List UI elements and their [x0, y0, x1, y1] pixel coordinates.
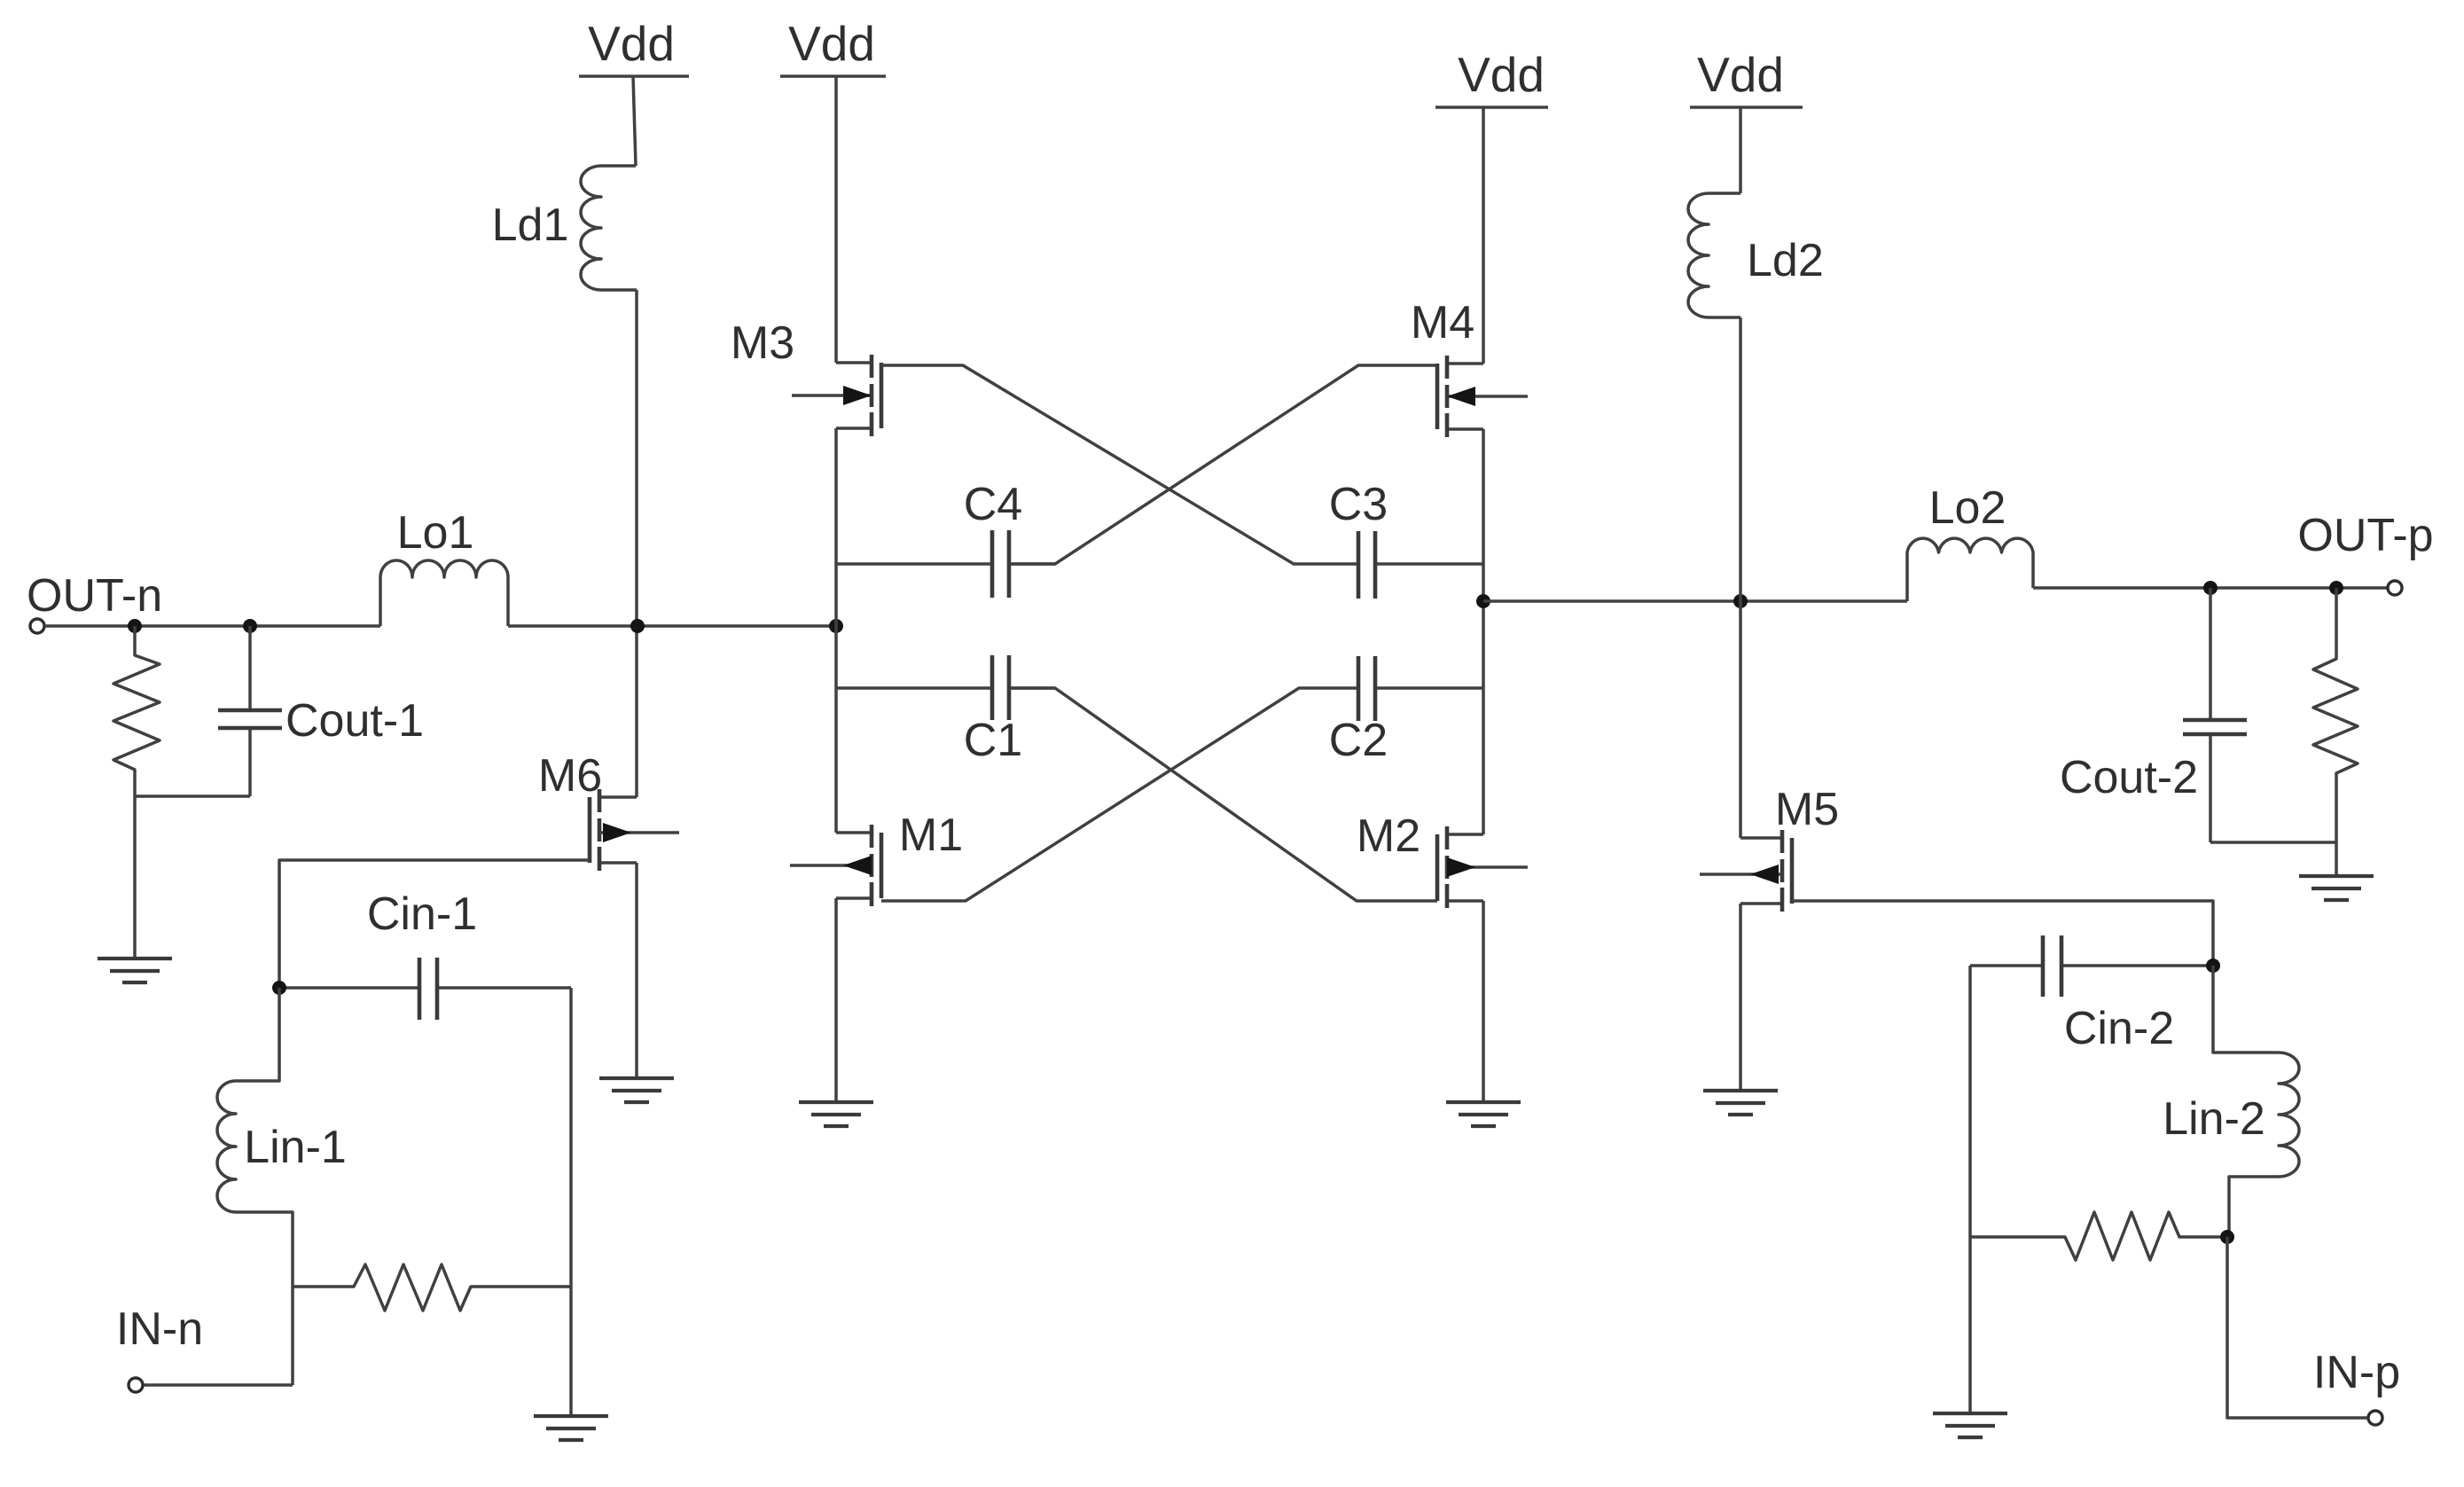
- svg-text:Vdd: Vdd: [1697, 47, 1784, 102]
- transistor M5: [1700, 784, 1839, 1091]
- terminal OUT-p: [2297, 510, 2433, 595]
- terminal IN-n: [116, 1303, 203, 1392]
- inductor Lin-1: [217, 988, 347, 1385]
- svg-text:M3: M3: [731, 317, 794, 369]
- resistor R-in-p: [1970, 1212, 2220, 1260]
- power Vdd3 bar: [1435, 106, 1548, 109]
- wire M3 source to M1 drain: [834, 428, 838, 833]
- capacitor Cout-2: [2060, 588, 2247, 842]
- wire M4 source to M2 drain: [1482, 429, 1485, 834]
- wire Lo2 to OUT-p: [2033, 586, 2388, 590]
- wire M2 gate to C1 (cross-couple): [1010, 688, 1437, 901]
- capacitor Cout-1: [218, 626, 424, 796]
- node dot at M4 drain line: [1476, 594, 1490, 608]
- svg-text:OUT-p: OUT-p: [2297, 510, 2433, 561]
- node dot at Cout-2 tap: [2203, 581, 2218, 595]
- wire M4 line to Lo2: [1483, 599, 1907, 603]
- svg-text:Vdd: Vdd: [1458, 47, 1545, 102]
- inductor Ld1: [492, 166, 637, 290]
- transistor M1: [790, 810, 963, 1102]
- svg-text:Cout-1: Cout-1: [286, 695, 424, 747]
- node dot at Cin-1 left: [272, 981, 286, 995]
- inductor Lo2: [1907, 482, 2033, 601]
- ground under Cin-1 right line: [534, 1416, 608, 1440]
- resistor R-out-n: [113, 626, 160, 959]
- power Vdd2 label: [788, 16, 875, 71]
- wire Vdd4 to Ld2: [1739, 107, 1742, 193]
- wire M4 gate to C4 (cross-couple): [1010, 365, 1437, 564]
- svg-text:IN-n: IN-n: [116, 1303, 203, 1355]
- svg-text:Cin-1: Cin-1: [367, 888, 477, 940]
- node dot at Cout-1 tap: [243, 619, 257, 633]
- wire Vdd1 to Ld1: [633, 76, 636, 166]
- ground under Cin-2 left line: [1933, 1413, 2007, 1437]
- svg-text:Lo1: Lo1: [397, 507, 474, 559]
- wire M5 gate to Cin-2 node: [1792, 901, 2213, 966]
- capacitor Cin-2: [1970, 935, 2213, 1054]
- svg-text:Ld1: Ld1: [492, 200, 569, 251]
- inductor Lo1: [380, 507, 508, 626]
- ground under M6: [599, 1078, 674, 1102]
- ground under M2: [1446, 1102, 1521, 1126]
- wire Lo1 to M3/M1 line: [508, 624, 836, 628]
- wire Cin-1 right line to ground: [569, 988, 573, 1416]
- svg-text:M4: M4: [1411, 297, 1474, 348]
- svg-text:Cin-2: Cin-2: [2064, 1003, 2174, 1054]
- ground under M5: [1703, 1091, 1778, 1115]
- capacitor C1: [836, 655, 1055, 766]
- svg-text:OUT-n: OUT-n: [27, 570, 162, 622]
- power Vdd4 bar: [1690, 106, 1803, 109]
- transistor M4: [1411, 297, 1528, 437]
- node dot at R-out-p tap: [2329, 581, 2343, 595]
- wire Vdd3 to M4 drain: [1482, 107, 1485, 364]
- node dot at Cin-2 right: [2206, 959, 2220, 973]
- power Vdd1 label: [588, 16, 675, 71]
- capacitor Cin-1: [279, 888, 571, 1020]
- svg-text:M2: M2: [1357, 810, 1420, 862]
- ground under R-out-n: [98, 959, 172, 982]
- svg-text:IN-p: IN-p: [2313, 1347, 2400, 1398]
- wire OUT-n to Lo1: [44, 624, 380, 628]
- svg-text:Cout-2: Cout-2: [2060, 752, 2198, 803]
- wire Vdd2 to M3 drain: [834, 76, 838, 363]
- svg-text:M1: M1: [899, 810, 963, 861]
- svg-text:Ld2: Ld2: [1747, 235, 1824, 286]
- wire Cout-1 bottom to resistor line: [135, 794, 250, 798]
- svg-text:Lo2: Lo2: [1929, 482, 2006, 534]
- wire Cout-2 bottom to resistor line: [2210, 841, 2336, 844]
- node dot at Ld1 line: [630, 619, 645, 633]
- terminal IN-p: [2313, 1347, 2400, 1425]
- wire Ld1 to main node: [635, 290, 638, 797]
- node dot at M3/M1 line: [829, 619, 843, 633]
- wire M1 gate to C2 (cross-couple): [881, 688, 1358, 901]
- svg-text:Vdd: Vdd: [788, 16, 875, 71]
- resistor R-in-n: [293, 1264, 571, 1311]
- power Vdd1 bar: [579, 74, 689, 78]
- wire Cin-2 left line to ground: [1968, 966, 1972, 1413]
- svg-text:Lin-2: Lin-2: [2163, 1093, 2265, 1145]
- power Vdd4 label: [1697, 47, 1784, 102]
- wire M6 gate to Cin-1 node: [279, 860, 590, 988]
- svg-text:C1: C1: [964, 715, 1022, 766]
- svg-text:M6: M6: [538, 750, 602, 802]
- svg-text:M5: M5: [1775, 784, 1839, 835]
- svg-text:C2: C2: [1329, 715, 1388, 766]
- svg-text:Lin-1: Lin-1: [244, 1122, 347, 1173]
- capacitor C3: [1329, 479, 1483, 599]
- node dot at Lin-2/resistor junction: [2220, 1230, 2234, 1244]
- svg-text:C3: C3: [1329, 479, 1388, 530]
- svg-text:Vdd: Vdd: [588, 16, 675, 71]
- wire to IN-n: [143, 1383, 293, 1387]
- transistor M2: [1357, 810, 1528, 1102]
- wire junction to IN-p: [2227, 1237, 2368, 1418]
- capacitor C4: [836, 479, 1055, 598]
- capacitor C2: [1329, 656, 1483, 766]
- ground under M1: [799, 1102, 873, 1126]
- inductor Ld2: [1688, 193, 1824, 317]
- wire Ld2 to M5 drain: [1739, 317, 1742, 838]
- transistor M3: [731, 317, 881, 436]
- svg-text:C4: C4: [964, 479, 1022, 530]
- node dot at resistor tap: [128, 619, 142, 633]
- resistor R-out-p: [2313, 588, 2358, 876]
- transistor M6: [538, 750, 679, 1078]
- power Vdd2 bar: [780, 74, 886, 78]
- power Vdd3 label: [1458, 47, 1545, 102]
- ground under R-out-p: [2299, 876, 2374, 900]
- inductor Lin-2: [2163, 966, 2299, 1237]
- node dot at Ld2 line: [1733, 594, 1748, 608]
- wire M3 gate to C3 (cross-couple): [881, 365, 1358, 564]
- terminal OUT-n: [27, 570, 162, 633]
